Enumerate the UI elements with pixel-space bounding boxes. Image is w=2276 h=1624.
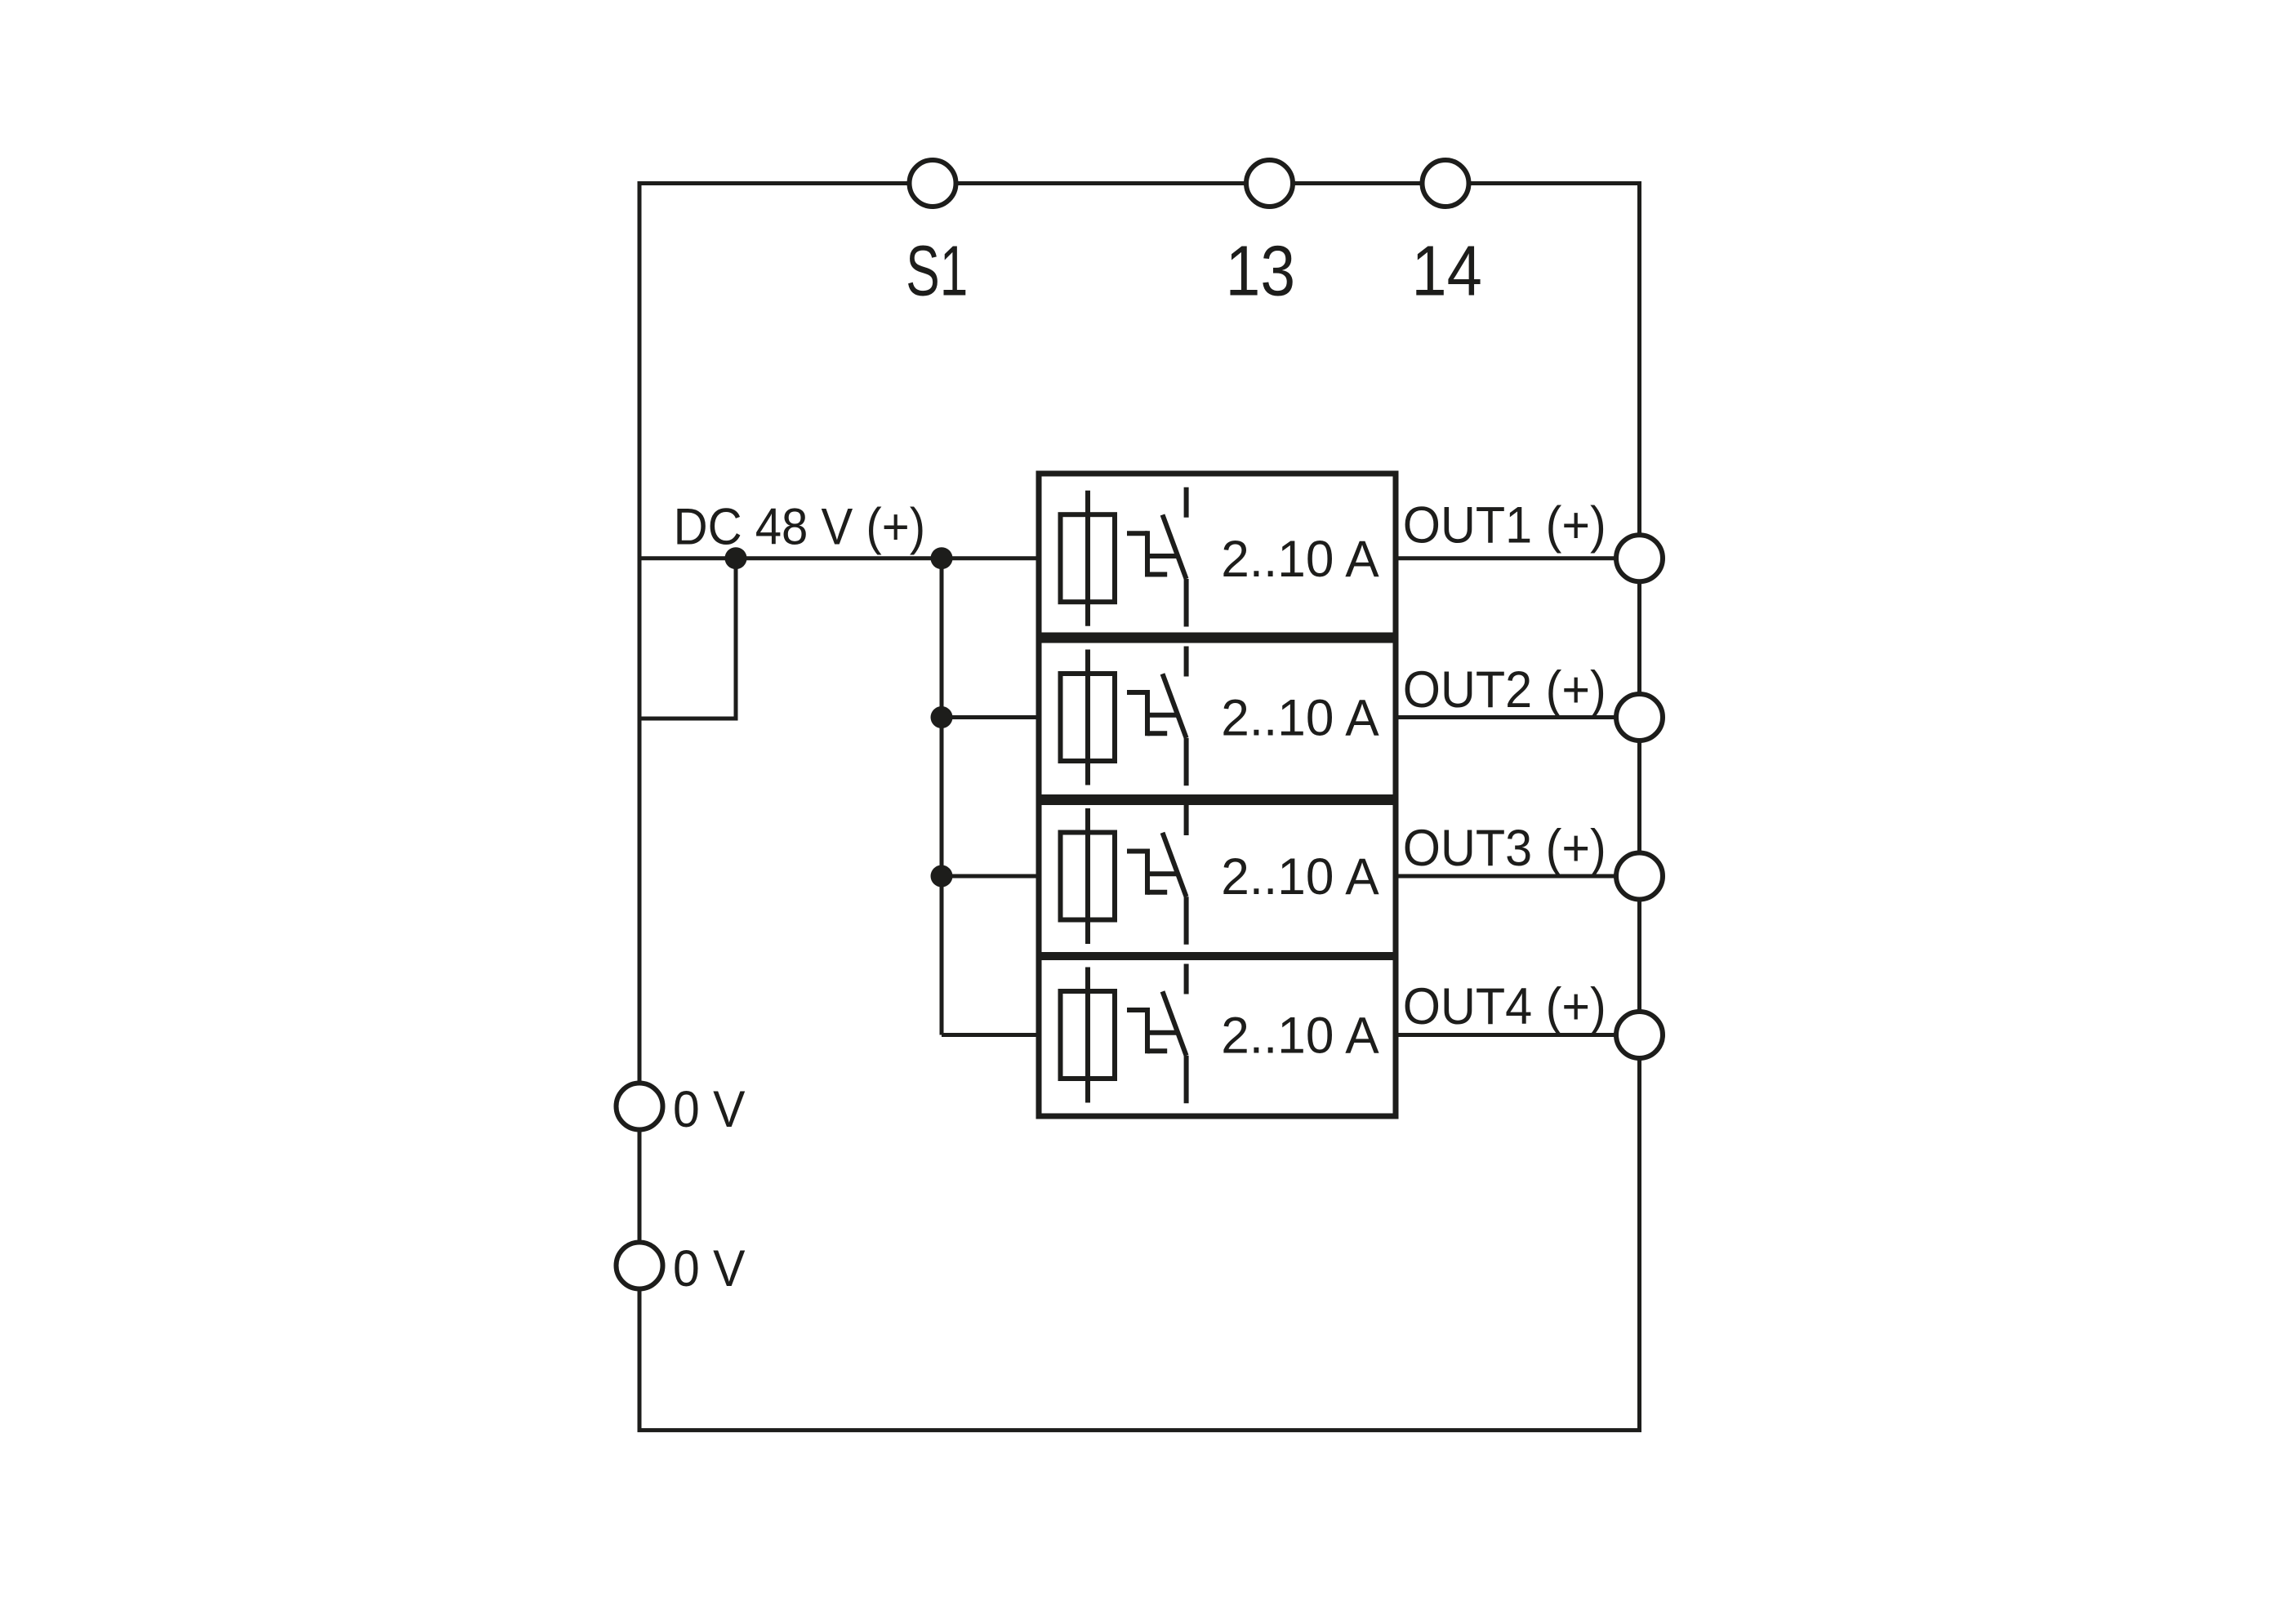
wire left bus [638, 181, 642, 1430]
fuse F3 [1061, 808, 1116, 944]
wire branch to module 2 [942, 715, 1039, 719]
svg-text:OUT1 (+): OUT1 (+) [1403, 497, 1606, 554]
module divider 3/4 [1039, 952, 1396, 960]
svg-text:2..10 A: 2..10 A [1221, 848, 1379, 905]
svg-text:0 V: 0 V [673, 1240, 746, 1297]
svg-text:13: 13 [1226, 232, 1296, 311]
terminal 0V lower [617, 1243, 663, 1289]
wire branch to module 3 [942, 874, 1039, 879]
svg-text:OUT2 (+): OUT2 (+) [1403, 661, 1606, 719]
node junction dot A [725, 547, 747, 569]
svg-text:OUT4 (+): OUT4 (+) [1403, 978, 1606, 1035]
svg-text:0 V: 0 V [673, 1081, 746, 1138]
terminal OUT1 [1616, 535, 1663, 581]
terminal 0V upper [617, 1083, 663, 1130]
terminal 13 [1246, 160, 1293, 207]
wire OUT4 [1396, 1033, 1640, 1037]
wire branch bus [940, 558, 944, 1035]
wire bottom bus [638, 1428, 1642, 1432]
terminal OUT3 [1616, 853, 1663, 900]
fuse F1 [1061, 491, 1116, 626]
terminal OUT2 [1616, 694, 1663, 741]
terminal S1 [910, 160, 956, 207]
module divider 2/3 [1039, 794, 1396, 805]
wire branch to module 4 [942, 1033, 1039, 1037]
breaker contact Q3 [1127, 805, 1187, 945]
node junction dot C [931, 706, 953, 728]
svg-text:OUT3 (+): OUT3 (+) [1403, 820, 1606, 877]
wire top bus [639, 181, 1640, 185]
terminal OUT4 [1616, 1012, 1663, 1058]
breaker contact Q1 [1127, 487, 1187, 627]
svg-text:2..10 A: 2..10 A [1221, 690, 1379, 747]
node junction dot B [931, 547, 953, 569]
fuse F2 [1061, 650, 1116, 785]
module divider 1/2 [1039, 633, 1396, 643]
svg-text:DC 48 V (+): DC 48 V (+) [674, 499, 926, 556]
wire OUT2 [1396, 715, 1640, 719]
svg-text:S1: S1 [906, 232, 968, 311]
node junction dot D [931, 865, 953, 888]
terminal 14 [1423, 160, 1469, 207]
breaker contact Q4 [1127, 964, 1187, 1104]
wire right bus [1637, 181, 1641, 1430]
wire DC 48 V feed [639, 556, 1039, 560]
module block outline [1039, 474, 1396, 1116]
wire OUT3 [1396, 874, 1640, 879]
wire OUT1 [1396, 556, 1640, 560]
svg-text:14: 14 [1411, 232, 1482, 311]
wire stub loop [639, 558, 736, 719]
breaker contact Q2 [1127, 647, 1187, 786]
svg-text:2..10 A: 2..10 A [1221, 531, 1379, 588]
fuse F4 [1061, 968, 1116, 1103]
svg-text:2..10 A: 2..10 A [1221, 1008, 1379, 1065]
